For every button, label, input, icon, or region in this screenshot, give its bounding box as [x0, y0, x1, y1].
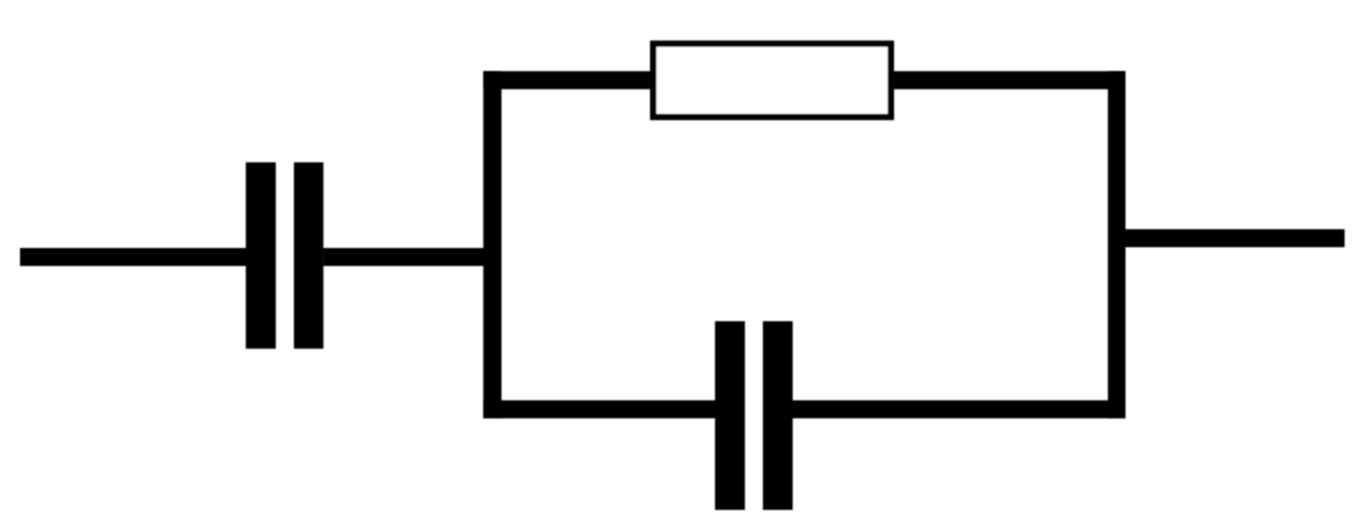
wire bottom branch right segment (C2 to node B): [790, 400, 1126, 418]
wire bottom branch left segment (node A to C2): [483, 400, 718, 418]
capacitor C1 left plate: [246, 162, 276, 348]
wire right vertical of loop (node B): [1108, 71, 1126, 418]
wire top branch right segment (resistor R1 to node B): [891, 71, 1126, 89]
wire left vertical of loop (node A): [483, 71, 501, 418]
capacitor C1 right plate: [294, 162, 324, 348]
capacitor C2 right plate: [763, 321, 793, 510]
wire output lead (node B to right terminal): [1126, 229, 1345, 247]
wire top branch left segment (to resistor R1): [483, 71, 656, 89]
resistor R1 (body outline): [653, 44, 891, 117]
capacitor C2 left plate: [715, 321, 745, 510]
wire C1 to node A (left junction of loop): [323, 248, 501, 266]
wire input lead (left terminal to C1): [20, 248, 248, 266]
